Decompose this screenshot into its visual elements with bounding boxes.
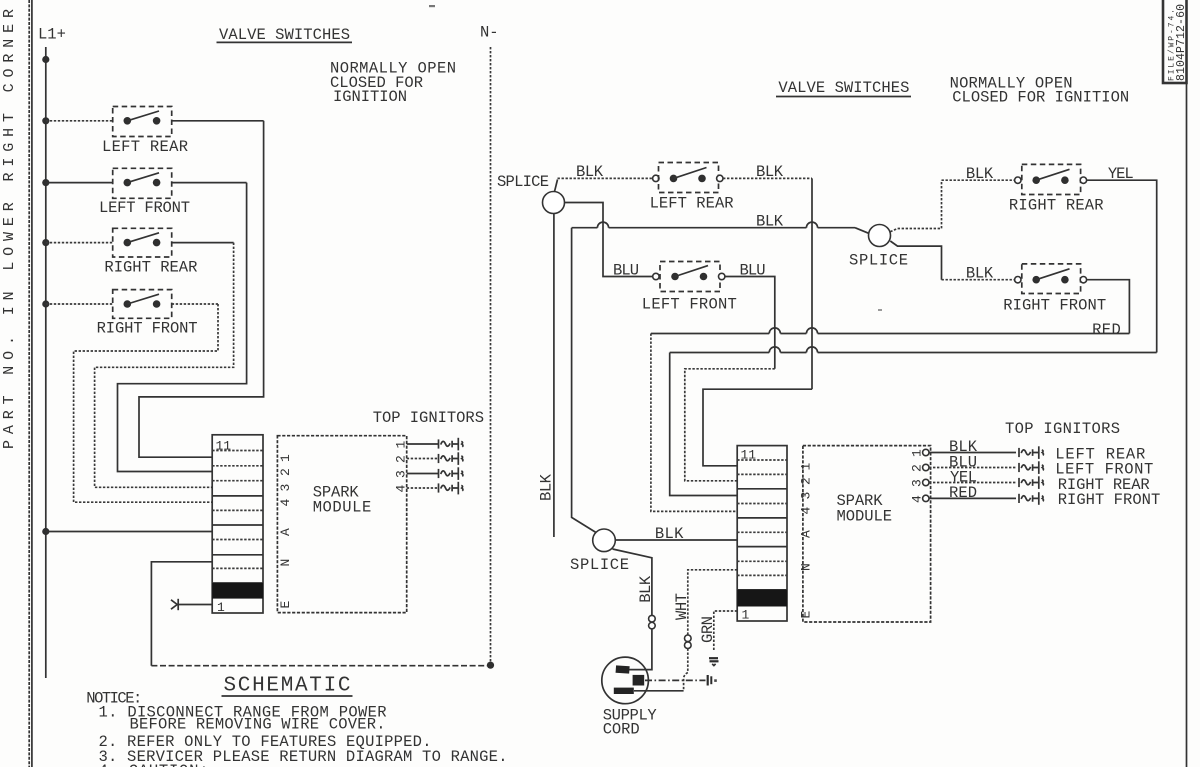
svg-text:N-: N- xyxy=(480,24,499,42)
wire RIGHT FRONT out (RED) xyxy=(1087,280,1130,334)
svg-text:4: 4 xyxy=(799,507,814,515)
svg-text:RIGHT FRONT: RIGHT FRONT xyxy=(97,320,198,338)
svg-text:11: 11 xyxy=(741,448,757,463)
svg-text:3: 3 xyxy=(799,492,814,500)
svg-text:BLK: BLK xyxy=(576,163,604,181)
svg-text:4: 4 xyxy=(394,485,409,493)
wire splice S2 upper branch to RIGHT REAR xyxy=(890,180,941,232)
wire BLK return to strip row 2 xyxy=(703,389,812,466)
terminal strip TB1 filled cell xyxy=(212,583,263,599)
wire to RIGHT FRONT switch (BLK) xyxy=(942,279,1015,281)
svg-text:1: 1 xyxy=(217,600,225,615)
svg-text:L1+: L1+ xyxy=(38,26,66,44)
svg-text:RIGHT REAR: RIGHT REAR xyxy=(1009,197,1104,215)
terminal strip TB2 filled cell xyxy=(737,590,787,607)
terminal strip TB2 xyxy=(737,446,787,621)
wire ignitor output 3 xyxy=(407,473,439,475)
pin circle 1 (module2) xyxy=(923,449,929,455)
pin circle 2 (module2) xyxy=(923,464,929,470)
svg-text:BLK: BLK xyxy=(966,265,994,283)
svg-text:GRN: GRN xyxy=(699,616,717,643)
wire strip terminal 1 to ground (GRN) xyxy=(714,611,737,652)
svg-text:CLOSED FOR IGNITION: CLOSED FOR IGNITION xyxy=(952,89,1129,107)
wire splice S2 lower branch to RIGHT FRONT xyxy=(890,241,941,280)
svg-text:TOP IGNITORS: TOP IGNITORS xyxy=(373,409,484,427)
svg-text:SPLICE: SPLICE xyxy=(849,252,908,270)
svg-text:LEFT REAR: LEFT REAR xyxy=(650,195,734,213)
junction L1 to module row xyxy=(42,528,49,535)
ignitor spark gap (RED) xyxy=(1019,492,1043,505)
svg-text:2: 2 xyxy=(799,477,814,485)
svg-text:LEFT FRONT: LEFT FRONT xyxy=(642,296,737,314)
valve switch LEFT FRONT (schematic) xyxy=(46,168,247,198)
wire output 2 BLU xyxy=(929,467,1016,469)
wire LEFT REAR return to module pin 1 xyxy=(139,121,264,457)
svg-text:BLK: BLK xyxy=(637,575,655,603)
label SUPPLY CORD xyxy=(603,707,658,739)
ignitor spark gap 1 xyxy=(439,438,463,451)
title VALVE SWITCHES (right) xyxy=(776,79,911,97)
wire splice S1 branch down through x571 xyxy=(572,228,597,533)
ignitor spark gap 3 xyxy=(439,467,463,480)
svg-text:SCHEMATIC: SCHEMATIC xyxy=(224,675,351,698)
svg-text:CORD: CORD xyxy=(603,721,640,739)
splice S1 xyxy=(543,192,565,214)
pin circle 3 (module2) xyxy=(923,479,929,485)
ignitor spark gap (BLK) xyxy=(1019,446,1043,459)
svg-text:RIGHT REAR: RIGHT REAR xyxy=(104,258,197,276)
svg-text:1: 1 xyxy=(278,454,293,462)
part number box (top right) xyxy=(1163,0,1188,83)
svg-text:1: 1 xyxy=(742,608,750,623)
svg-text:3: 3 xyxy=(394,470,409,478)
wire output 3 YEL xyxy=(929,482,1016,484)
svg-text:RIGHT FRONT: RIGHT FRONT xyxy=(1058,491,1161,509)
wire strip terminal N to supply cord (WHT) xyxy=(634,570,737,691)
svg-text:RED: RED xyxy=(949,484,977,502)
svg-text:A: A xyxy=(799,530,814,538)
ground symbol (module 1 terminal 1) xyxy=(171,599,212,610)
junction row1 xyxy=(42,117,49,124)
op module U2 SPARK MODULE box xyxy=(803,446,931,622)
wire splice S3 to strip terminal A (BLK) xyxy=(615,539,737,541)
wire terminal N to bottom rail xyxy=(151,562,212,666)
ground symbol (supply cord) xyxy=(708,675,717,686)
svg-text:RIGHT FRONT: RIGHT FRONT xyxy=(1003,297,1106,315)
border frame right line xyxy=(1186,0,1188,767)
svg-text:BLK: BLK xyxy=(756,213,784,231)
svg-text:LEFT FRONT: LEFT FRONT xyxy=(99,199,190,217)
note NORMALLY OPEN CLOSED FOR IGNITION (left) xyxy=(330,60,456,107)
ground symbol (GRN lead) xyxy=(709,658,719,665)
wire LEFT REAR switch out (BLK) xyxy=(723,177,812,179)
valve switch RIGHT FRONT (wiring) xyxy=(1015,264,1087,294)
svg-text:1: 1 xyxy=(799,463,814,471)
wire RIGHT FRONT return to module pin 4 xyxy=(74,304,218,502)
wire RED rail to strip row 5 xyxy=(651,328,1130,512)
wire splice S1 to LEFT REAR switch (BLK) xyxy=(555,178,653,191)
svg-text:TOP IGNITORS: TOP IGNITORS xyxy=(1005,420,1120,438)
wire N- vertical xyxy=(490,47,492,666)
terminal strip TB1 xyxy=(212,435,263,613)
junction bottom rail / N- xyxy=(487,662,494,669)
stray scan mark xyxy=(878,309,882,311)
junction on L1 bus xyxy=(42,56,49,63)
label SPARK MODULE xyxy=(313,484,372,517)
ignitor spark gap (BLU) xyxy=(1019,461,1043,474)
valve switch LEFT REAR (schematic) xyxy=(46,107,264,137)
svg-text:SPLICE: SPLICE xyxy=(497,173,549,191)
svg-text:N: N xyxy=(278,559,293,567)
splice S2 xyxy=(869,225,891,247)
svg-text:BLK: BLK xyxy=(655,525,684,543)
svg-text:BEFORE REMOVING WIRE COVER.: BEFORE REMOVING WIRE COVER. xyxy=(130,715,386,733)
valve switch RIGHT FRONT (schematic) xyxy=(46,290,218,319)
valve switch LEFT REAR (wiring) xyxy=(653,163,723,193)
svg-text:MODULE: MODULE xyxy=(837,508,893,526)
svg-text:SPLICE: SPLICE xyxy=(570,556,629,574)
splice S3 xyxy=(593,529,616,552)
svg-text:VALVE SWITCHES: VALVE SWITCHES xyxy=(778,79,909,97)
svg-text:2: 2 xyxy=(394,455,409,463)
title VALVE SWITCHES (left) xyxy=(217,26,353,44)
junction row4 xyxy=(42,300,49,307)
svg-text:VALVE SWITCHES: VALVE SWITCHES xyxy=(219,26,350,44)
op module U1 SPARK MODULE box xyxy=(277,436,406,613)
svg-text:A: A xyxy=(278,528,293,536)
svg-text:2: 2 xyxy=(278,468,293,476)
ignitor spark gap 2 xyxy=(439,452,463,465)
svg-text:N: N xyxy=(799,563,814,571)
pin circle 4 (module2) xyxy=(923,495,929,501)
svg-text:WHT: WHT xyxy=(673,593,691,620)
wire BLU return to strip row 3 xyxy=(685,369,775,481)
border frame left double line xyxy=(29,0,32,767)
ignitor spark gap (YEL) xyxy=(1019,476,1043,489)
wire YEL rail to strip row 4 xyxy=(670,347,1157,496)
valve switch RIGHT REAR (schematic) xyxy=(46,228,234,257)
svg-text:BLK: BLK xyxy=(966,165,994,183)
supply cord plug P1 xyxy=(602,657,649,704)
svg-text:BLK: BLK xyxy=(538,473,556,501)
wire LEFT FRONT return to module pin 2 xyxy=(118,183,247,472)
wire BLK return vertical xyxy=(811,178,813,389)
wire splice S3 down to supply cord (BLK) xyxy=(613,549,656,670)
svg-text:3: 3 xyxy=(278,484,293,492)
note NORMALLY OPEN CLOSED FOR IGNITION (right) xyxy=(950,75,1130,107)
valve switch LEFT FRONT (wiring) xyxy=(653,262,725,292)
wire splice S1 to splice S2 rail (BLK) xyxy=(572,222,869,233)
svg-text:E: E xyxy=(278,601,293,609)
label SPARK MODULE (U2) xyxy=(837,492,893,526)
wire LEFT FRONT out (BLU) xyxy=(725,277,775,369)
wire bottom rail to N- xyxy=(151,665,490,667)
wire RIGHT REAR return to module pin 3 xyxy=(95,243,234,488)
valve switch RIGHT REAR (wiring) xyxy=(1015,164,1087,194)
svg-text:4: 4 xyxy=(278,499,293,507)
svg-text:MODULE: MODULE xyxy=(313,499,372,517)
wire supply cord centre pin to chassis ground (dash-dot) xyxy=(645,679,706,681)
wire ignitor output 4 xyxy=(407,487,439,489)
svg-text:RED: RED xyxy=(1092,321,1121,339)
wire ignitor output 2 xyxy=(407,458,439,460)
wire splice S1 down to splice S3 xyxy=(553,214,555,538)
svg-text:IGNITION: IGNITION xyxy=(333,88,407,106)
wire L1+ bus xyxy=(45,47,47,678)
wire output 4 RED xyxy=(929,497,1016,499)
svg-text:BLU: BLU xyxy=(613,262,639,280)
svg-text:4. CAUTION:: 4. CAUTION: xyxy=(99,762,209,767)
svg-text:E: E xyxy=(799,611,814,619)
wire splice S1 to LEFT FRONT (BLU) xyxy=(565,203,653,277)
ignitor spark gap 4 xyxy=(439,482,463,495)
svg-text:11: 11 xyxy=(216,439,232,454)
wire ignitor output 1 xyxy=(407,443,439,445)
junction row3 xyxy=(42,239,49,246)
svg-text:1: 1 xyxy=(394,441,409,449)
wire L1 bus to terminal A xyxy=(46,531,212,533)
wire output 1 BLK xyxy=(929,452,1016,454)
title SCHEMATIC xyxy=(222,675,353,698)
wire RIGHT REAR out (YEL) xyxy=(1087,180,1157,352)
svg-text:LEFT REAR: LEFT REAR xyxy=(102,138,188,156)
junction row2 xyxy=(42,179,49,186)
wire to RIGHT REAR switch (BLK) xyxy=(942,179,1015,181)
svg-text:8104P712-60: 8104P712-60 xyxy=(1175,4,1188,81)
stray scan mark top centre xyxy=(429,5,435,7)
